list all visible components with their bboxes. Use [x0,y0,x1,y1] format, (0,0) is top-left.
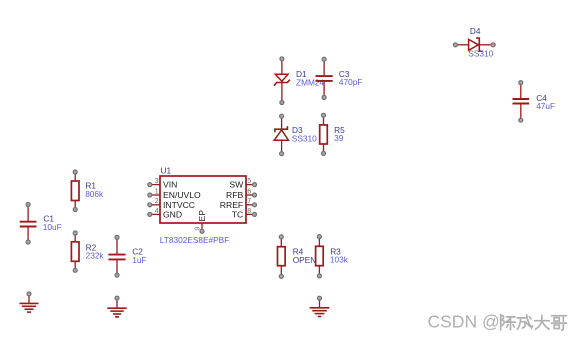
svg-text:5: 5 [247,178,251,185]
svg-text:2: 2 [155,198,159,205]
pin 5 SW (right) [229,178,256,190]
svg-text:EN/UVLO: EN/UVLO [163,190,201,200]
resistor R1 [71,170,79,212]
svg-text:470pF: 470pF [339,77,363,87]
ground [107,296,126,317]
svg-text:OPEN: OPEN [293,255,317,265]
ground [20,292,39,312]
svg-text:103k: 103k [330,255,349,265]
svg-text:LT8302ES8E#PBF: LT8302ES8E#PBF [160,235,230,245]
diode D1 zener ZMM24 [274,57,290,105]
svg-text:VIN: VIN [163,180,177,190]
svg-text:RREF: RREF [220,200,243,210]
capacitor C4 [513,81,530,123]
svg-text:SS310: SS310 [292,133,317,143]
resistor R4 [278,235,286,278]
watermark char ge [552,316,567,330]
pin 8 TC (right) [232,208,257,220]
svg-text:232k: 232k [86,251,105,261]
svg-text:1: 1 [155,188,159,195]
svg-text:INTVCC: INTVCC [163,200,195,210]
watermark char chen [501,315,516,330]
op-amp U1 LT8302 body [160,176,246,223]
svg-text:10uF: 10uF [43,222,62,232]
pin 4 GND (left) [148,208,182,220]
resistor R2 [71,231,79,272]
resistor R3 [316,235,324,278]
pin 1 EN/UVLO (left) [148,188,201,200]
svg-text:RFB: RFB [226,190,243,200]
svg-text:1uF: 1uF [132,255,146,265]
svg-text:GND: GND [163,210,182,220]
svg-text:39: 39 [334,133,344,143]
diode D4 schottky SS310 (horizontal) [453,38,495,51]
svg-text:CSDN @: CSDN @ [428,312,500,332]
capacitor C2 [108,235,125,277]
svg-text:EP: EP [197,210,207,222]
pin 2 INTVCC (left) [148,198,195,210]
resistor R5 [320,113,328,155]
svg-text:SW: SW [229,180,244,190]
svg-text:8: 8 [247,208,251,215]
svg-text:4: 4 [155,208,159,215]
svg-text:TC: TC [232,210,243,220]
svg-text:U1: U1 [161,166,172,176]
watermark char cheng [517,315,532,329]
pin 6 RFB (right) [226,188,256,200]
svg-text:3: 3 [155,178,159,185]
svg-text:6: 6 [247,188,251,195]
watermark char da [535,315,550,329]
capacitor C3 [316,57,333,99]
svg-text:ZMM24: ZMM24 [296,78,325,88]
ground [310,296,330,316]
diode D3 schottky SS310 [274,114,288,156]
svg-text:7: 7 [247,198,251,205]
svg-text:SS310: SS310 [468,49,493,59]
svg-text:806k: 806k [85,189,104,199]
svg-text:47uF: 47uF [536,101,555,111]
pin 7 RREF (right) [220,198,257,210]
pin 9 EP (bottom) [194,210,207,234]
capacitor C1 [20,203,37,245]
pin 3 VIN (left) [148,178,178,190]
svg-text:D4: D4 [470,26,481,36]
